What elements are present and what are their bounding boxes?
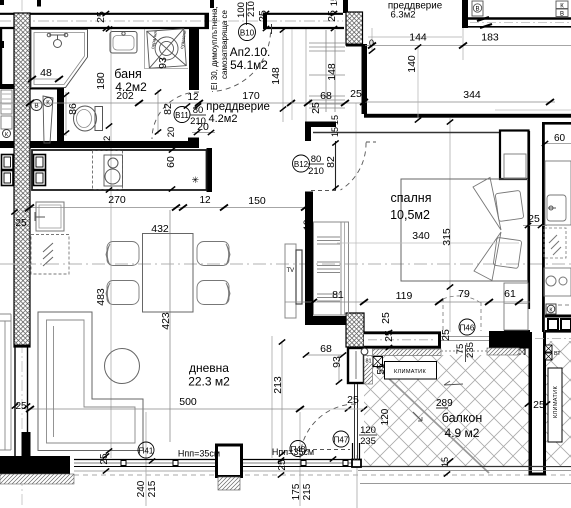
svg-text:82: 82 — [162, 103, 174, 115]
svg-text:П47: П47 — [334, 436, 349, 445]
axis vertical x356 — [355, 103, 357, 316]
svg-text:86: 86 — [67, 103, 79, 115]
balcony door frame — [352, 443, 354, 466]
svg-text:ВТ: ВТ — [554, 351, 561, 357]
dining table — [143, 234, 194, 313]
svg-text:25: 25 — [347, 394, 359, 406]
toilet — [95, 107, 103, 131]
bed — [401, 179, 528, 281]
svg-text:144: 144 — [409, 32, 427, 44]
riser circles V K — [31, 100, 42, 111]
washbasin bath — [110, 32, 137, 54]
svg-text:дневна: дневна — [189, 361, 229, 375]
svg-text:0: 0 — [369, 38, 374, 48]
svg-text:148: 148 — [326, 63, 338, 81]
bedroom north wall — [364, 114, 571, 118]
svg-text:60: 60 — [554, 133, 566, 144]
band left end cap — [263, 13, 267, 30]
left wall white continuation — [14, 347, 16, 456]
kitchen sink — [36, 202, 64, 231]
neighbour air conditioner — [548, 368, 562, 442]
door B10 swing arc — [212, 33, 271, 92]
entry closet lines — [326, 30, 335, 112]
svg-text:500: 500 — [179, 396, 197, 408]
balcony slope diagonal — [367, 358, 489, 473]
pillow 1 — [495, 190, 524, 221]
svg-text:25: 25 — [533, 399, 545, 411]
svg-text:68: 68 — [320, 90, 332, 102]
extension line x292 — [291, 29, 293, 120]
svg-text:210: 210 — [246, 1, 257, 17]
TV cabinet — [285, 244, 296, 318]
bedroom south wall east block — [489, 331, 530, 349]
svg-text:Ап2.10.: Ап2.10. — [230, 45, 271, 59]
door P47 bottom mullion — [352, 460, 361, 468]
SW hatch band — [0, 474, 74, 484]
dim 340 bedroom — [337, 242, 519, 244]
zigzag marks top right — [477, 17, 492, 28]
svg-text:25: 25 — [383, 330, 395, 342]
neighbour BT boxes — [545, 345, 552, 352]
svg-text:148: 148 — [270, 67, 282, 85]
west facade line — [0, 29, 2, 85]
neighbour bath fixture top right 1 — [472, 1, 483, 16]
neighbour kitchen west wall face — [542, 122, 545, 332]
bedroom west wall — [305, 192, 313, 326]
dim 93 rotated balcony west — [338, 355, 340, 382]
slope mark 2 — [444, 381, 463, 385]
shower faucet — [49, 35, 66, 40]
exterior wall band top-left — [0, 13, 209, 29]
svg-text:ЕІ 30, димоуплътнена,: ЕІ 30, димоуплътнена, — [210, 6, 219, 90]
svg-text:В10: В10 — [240, 29, 255, 38]
svg-text:В12: В12 — [294, 160, 309, 169]
dim line y302 bedroom south — [285, 301, 530, 303]
dim 213 rotated — [281, 341, 283, 455]
chair top-right — [197, 242, 229, 266]
dim 20 hall — [192, 132, 215, 134]
dim 68 balcony west — [305, 354, 343, 356]
svg-text:25: 25 — [440, 329, 452, 341]
dim 82 door B11 rotated — [157, 90, 159, 134]
neighbour appliance 1 — [2, 155, 14, 170]
svg-text:79: 79 — [458, 288, 470, 300]
svg-text:12: 12 — [187, 92, 199, 103]
neighbour wall left y84 — [0, 84, 14, 89]
kitchen left appliance 1 — [34, 155, 46, 170]
south window band B — [242, 459, 352, 461]
door P47 leaf — [354, 384, 356, 460]
neighbour kitchen counter right — [545, 161, 571, 225]
svg-text:25: 25 — [380, 312, 392, 324]
svg-text:4.2м2: 4.2м2 — [209, 113, 238, 125]
svg-text:93: 93 — [157, 57, 169, 69]
door P46 threshold — [441, 336, 489, 338]
coffee table — [105, 349, 140, 384]
neighbour bath fixture top right 2 — [556, 1, 568, 9]
bedroom east wall inner face — [528, 131, 531, 309]
top right room south wall band — [468, 17, 571, 28]
washer dryer — [147, 29, 186, 68]
SW wall pier — [22, 432, 31, 457]
door B12 leaf — [335, 141, 337, 190]
stove dashed — [93, 151, 123, 190]
dim line y103 — [0, 102, 364, 104]
chair bottom-right — [197, 281, 229, 305]
svg-text:TV: TV — [287, 268, 295, 274]
axis horizontal y475 dashed — [74, 474, 571, 476]
axis horizontal y264 — [0, 263, 571, 265]
kitchen wall notch — [188, 138, 199, 142]
axis vertical x146 — [145, 412, 147, 506]
column A bottom cap — [14, 345, 30, 348]
neighbour appliance 2 — [2, 171, 14, 186]
svg-text:81: 81 — [365, 359, 371, 365]
svg-text:120: 120 — [360, 425, 376, 436]
neighbour sofa — [0, 314, 11, 450]
bathroom heater — [43, 96, 53, 143]
svg-text:15: 15 — [330, 115, 340, 125]
svg-text:240: 240 — [136, 480, 147, 497]
balcony north sill hatch west L-shape — [373, 349, 442, 356]
chair top-left — [107, 242, 139, 266]
svg-text:22.3 м2: 22.3 м2 — [188, 375, 230, 389]
shower cabin — [31, 30, 88, 88]
axis vertical x170 — [169, 210, 171, 442]
svg-text:10,5м2: 10,5м2 — [390, 208, 430, 222]
svg-text:82: 82 — [325, 156, 337, 168]
gray line y37 top right — [368, 36, 462, 38]
axis vertical x283 — [282, 29, 284, 122]
svg-text:60: 60 — [165, 156, 177, 168]
hatched column A left wall — [14, 13, 30, 347]
svg-text:Нпп=35см: Нпп=35см — [178, 449, 220, 459]
SW corner solid wall — [0, 456, 70, 474]
neighbour stove — [544, 268, 571, 296]
svg-text:4.2м2: 4.2м2 — [115, 80, 147, 94]
svg-text:12: 12 — [199, 195, 211, 206]
wall band top-left right end cap — [205, 13, 210, 29]
svg-text:В: В — [560, 12, 564, 18]
slope mark 1 — [413, 412, 422, 421]
svg-text:25: 25 — [15, 218, 27, 229]
small pipe circle — [361, 348, 368, 355]
svg-text:235: 235 — [465, 342, 476, 358]
svg-text:25: 25 — [350, 88, 362, 100]
svg-text:спалня: спалня — [391, 191, 432, 205]
wall stub to top edge — [343, 0, 348, 13]
air conditioner box balcony — [385, 362, 437, 380]
svg-text:80: 80 — [193, 105, 204, 116]
svg-text:П46: П46 — [460, 324, 475, 333]
axis vertical x300 — [299, 412, 301, 506]
svg-text:КЛИМАТИК: КЛИМАТИК — [394, 369, 426, 375]
gray sill line y471 — [74, 470, 352, 472]
svg-text:самозатваряща се: самозатваряща се — [220, 10, 229, 79]
svg-text:48: 48 — [40, 67, 52, 79]
dim line y409 extension — [303, 408, 364, 410]
svg-text:25: 25 — [310, 102, 322, 114]
svg-text:120: 120 — [380, 408, 391, 425]
neighbour balcony floor hatch — [546, 341, 571, 466]
svg-text:432: 432 — [151, 223, 169, 235]
svg-text:25: 25 — [277, 459, 288, 471]
svg-text:П41: П41 — [139, 447, 154, 456]
top right room west wall — [462, 0, 468, 28]
balcony divider wall white core — [529, 332, 547, 476]
svg-text:80: 80 — [311, 154, 322, 165]
hatch below column box — [218, 477, 240, 490]
marker P46 — [459, 319, 475, 335]
svg-text:В: В — [475, 7, 479, 13]
svg-text:215: 215 — [302, 483, 313, 500]
balcony north sill hatch east — [487, 348, 519, 355]
svg-text:6.3м2: 6.3м2 — [390, 10, 415, 21]
neighbour K circle — [546, 304, 556, 314]
svg-text:20: 20 — [166, 127, 177, 138]
NE corner cabinet — [500, 131, 529, 180]
kitchen counter — [32, 150, 207, 190]
svg-text:180: 180 — [95, 72, 107, 90]
svg-text:✳: ✳ — [192, 175, 200, 185]
hatched column C — [346, 313, 364, 347]
svg-text:68: 68 — [320, 343, 332, 355]
door P46 swing dashed jambs — [442, 298, 444, 331]
svg-text:140: 140 — [406, 55, 418, 73]
hatched column D balcony east — [517, 347, 525, 383]
svg-text:Нпп=35см: Нпп=35см — [272, 447, 314, 457]
bedroom wardrobe — [314, 222, 349, 315]
window mullion — [343, 461, 348, 466]
door P47 swing arc — [300, 404, 356, 460]
dim 86 rotated — [65, 92, 67, 136]
svg-text:12: 12 — [102, 136, 113, 147]
hall wall piece above door B12 — [305, 122, 336, 142]
svg-text:55: 55 — [376, 363, 387, 375]
washing niche wall — [189, 29, 199, 90]
svg-text:119: 119 — [396, 290, 413, 302]
thin line above wall — [495, 109, 571, 111]
shower base line — [30, 88, 57, 90]
neighbour left shaft fixtures — [1, 90, 12, 114]
marker B10 — [239, 24, 256, 41]
svg-text:В11: В11 — [175, 111, 189, 120]
facade column box — [217, 445, 242, 477]
svg-text:423: 423 — [160, 312, 172, 330]
svg-text:210: 210 — [190, 116, 206, 127]
svg-text:В: В — [34, 103, 38, 110]
dim 48 shower — [32, 78, 61, 80]
wall band top (entry) — [263, 13, 343, 30]
nightstand bottom — [504, 283, 528, 330]
svg-text:210: 210 — [308, 166, 324, 177]
svg-text:315: 315 — [441, 228, 453, 246]
door B11 swing arc — [152, 92, 199, 139]
wall below column B — [362, 44, 368, 114]
marker P48 — [290, 441, 306, 457]
neighbour kitchen south bands — [545, 315, 571, 318]
sofa — [38, 312, 143, 451]
wall corner to hatch column C — [313, 316, 349, 325]
dim line y45 top right — [365, 45, 571, 47]
svg-text:150: 150 — [248, 195, 266, 207]
balcony floor hatch — [364, 355, 529, 467]
pier below column C — [348, 348, 364, 383]
chair bottom-left — [107, 281, 139, 305]
svg-text:54.1м2: 54.1м2 — [230, 58, 268, 72]
small black mark top edge — [37, 0, 41, 7]
label 81 small — [365, 357, 373, 364]
dim line y409 living — [25, 408, 303, 410]
niche boundary lines — [145, 29, 189, 69]
axis vertical x22 — [21, 0, 23, 508]
hatched column B — [346, 12, 363, 45]
door B12 swing arc — [341, 143, 367, 191]
neighbour kitchen north wall — [544, 122, 571, 125]
svg-text:25: 25 — [95, 11, 107, 23]
marker B12 — [293, 155, 310, 172]
svg-text:183: 183 — [481, 32, 499, 44]
ac outdoor X box — [373, 357, 383, 367]
window mullion — [301, 461, 306, 466]
svg-text:преддверие: преддверие — [206, 101, 270, 113]
pillow 2 — [493, 237, 522, 268]
svg-text:КЛИМАТИК: КЛИМАТИК — [553, 386, 559, 418]
marker P41 — [138, 442, 154, 458]
neighbour boiler dashed — [544, 228, 566, 258]
kitchen left appliance 2 — [34, 171, 46, 186]
svg-text:213: 213 — [272, 376, 284, 394]
window mullion — [173, 461, 178, 466]
dishwasher dashed — [31, 235, 69, 275]
bedroom south wall west band — [364, 332, 441, 349]
svg-text:4.9 м2: 4.9 м2 — [445, 426, 480, 440]
svg-text:15: 15 — [329, 0, 340, 6]
axis vertical x357 — [356, 455, 358, 508]
dim 25 bedroom east — [523, 225, 547, 227]
threshold dotted — [441, 350, 487, 352]
axis vertical x272 — [271, 336, 273, 458]
svg-text:340: 340 — [412, 230, 430, 242]
svg-text:344: 344 — [463, 89, 481, 101]
bathroom inner wall at toilet — [57, 88, 64, 146]
kitchen north wall neighbour part — [0, 141, 14, 148]
bedroom south face line under nightstand — [504, 330, 530, 332]
dim line y208 kitchen — [30, 207, 305, 209]
axis vertical x450 — [449, 118, 451, 332]
TV — [296, 250, 302, 304]
svg-text:баня: баня — [114, 67, 142, 81]
svg-text:483: 483 — [95, 288, 107, 306]
kitchen north wall — [30, 141, 199, 148]
svg-text:215: 215 — [147, 480, 158, 497]
svg-text:К: К — [46, 101, 50, 107]
axis vertical x109 — [110, 29, 112, 458]
axis vertical x306 — [305, 29, 307, 122]
svg-text:270: 270 — [108, 194, 126, 206]
svg-text:15: 15 — [330, 127, 340, 137]
svg-text:12: 12 — [302, 220, 313, 231]
blanket folds — [473, 178, 501, 231]
small black mark top edge entry — [210, 0, 214, 8]
svg-text:93: 93 — [331, 356, 343, 368]
marker P47 — [333, 431, 349, 447]
svg-text:балкон: балкон — [442, 411, 483, 425]
thin beam line y131 — [313, 132, 500, 134]
neighbour black units — [548, 319, 558, 330]
corner mark top-left — [0, 0, 4, 5]
svg-text:61: 61 — [504, 288, 516, 300]
south window band A — [74, 459, 216, 461]
marker B11 — [174, 107, 190, 123]
window mullion — [121, 461, 126, 466]
svg-text:235: 235 — [360, 436, 376, 447]
kitchen counter end panel — [207, 148, 213, 192]
svg-text:175: 175 — [291, 483, 302, 500]
balcony south edge lines — [358, 466, 571, 468]
svg-text:81: 81 — [332, 289, 344, 301]
svg-text:289: 289 — [436, 398, 453, 409]
